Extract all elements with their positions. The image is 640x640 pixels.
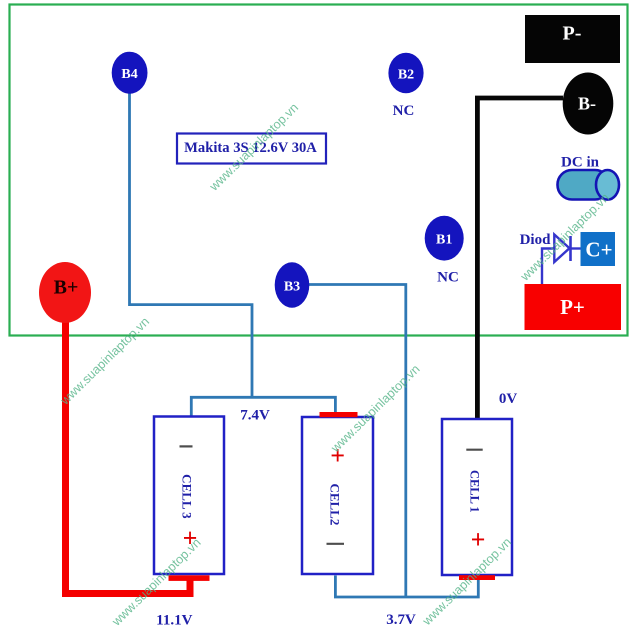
cell CELL1 — [442, 419, 512, 575]
wire diode cathode to C+ — [570, 247, 581, 249]
svg-text:DC in: DC in — [561, 155, 600, 171]
svg-text:B+: B+ — [54, 277, 79, 299]
wire red B+ to CELL3 plus — [66, 316, 191, 594]
pad B2 — [388, 53, 423, 94]
wire 7.4V net to cell tops — [191, 397, 335, 417]
pad B+ — [39, 262, 91, 323]
pad B- — [563, 73, 614, 135]
svg-text:B2: B2 — [398, 67, 414, 82]
diode D1 — [554, 235, 570, 263]
svg-text:7.4V: 7.4V — [240, 408, 270, 424]
cell CELL2 — [302, 417, 373, 574]
terminal bar CELL3 plus — [169, 575, 210, 581]
wire diode anode to P+ — [542, 249, 554, 285]
pad P+ — [525, 284, 622, 330]
label Makita 3S 12.6V 30A — [177, 134, 326, 164]
wire 3.7V net bottom — [335, 576, 478, 598]
svg-text:C+: C+ — [585, 238, 612, 262]
pad C+ — [581, 232, 616, 266]
terminal bar CELL2 plus — [320, 412, 358, 417]
svg-text:CELL 3: CELL 3 — [179, 474, 194, 519]
svg-text:P-: P- — [563, 23, 582, 45]
wire B3 balance lead — [307, 285, 406, 598]
svg-text:11.1V: 11.1V — [156, 613, 192, 629]
svg-text:NC: NC — [437, 270, 459, 286]
DC in connector barrel — [558, 170, 620, 200]
svg-text:B-: B- — [578, 94, 596, 114]
svg-text:CELL 1: CELL 1 — [468, 470, 482, 513]
watermark — [57, 101, 612, 630]
pad B4 — [112, 52, 148, 94]
svg-text:B4: B4 — [121, 67, 137, 82]
terminal bar CELL1 plus — [459, 575, 495, 580]
svg-text:CELL2: CELL2 — [328, 483, 343, 525]
svg-text:P+: P+ — [560, 295, 585, 319]
svg-text:0V: 0V — [499, 391, 518, 407]
pad B3 — [275, 262, 310, 307]
svg-text:+: + — [471, 525, 486, 554]
wire B4 balance lead — [130, 93, 253, 397]
pad B1 — [425, 216, 464, 261]
pad P- — [525, 15, 620, 63]
svg-text:B1: B1 — [436, 233, 452, 248]
cell CELL3 — [154, 417, 224, 575]
svg-text:NC: NC — [393, 103, 415, 119]
svg-text:B3: B3 — [284, 279, 300, 294]
svg-text:3.7V: 3.7V — [386, 612, 416, 628]
wire black B- to CELL1 — [477, 98, 563, 419]
